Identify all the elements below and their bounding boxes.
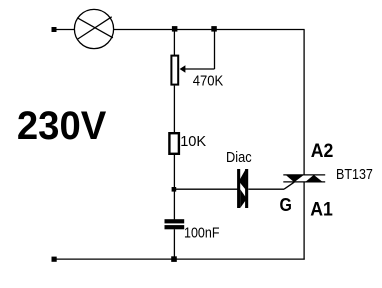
- svg-text:A1: A1: [310, 198, 333, 220]
- svg-text:230V: 230V: [17, 104, 107, 148]
- svg-text:10K: 10K: [180, 133, 206, 150]
- svg-text:100nF: 100nF: [184, 224, 220, 241]
- svg-text:A2: A2: [311, 140, 334, 162]
- svg-text:Diac: Diac: [226, 149, 252, 166]
- svg-text:470K: 470K: [193, 73, 224, 90]
- svg-text:BT137: BT137: [336, 166, 373, 183]
- svg-text:G: G: [280, 194, 292, 215]
